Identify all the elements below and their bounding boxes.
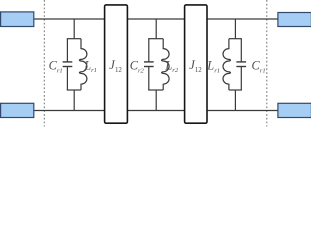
capacitor Cr2 [144, 39, 154, 90]
reference plane left (dashed) [43, 0, 45, 127]
reference plane right (dashed) [266, 0, 268, 127]
wire bottom rail segment 1 [34, 110, 105, 112]
wire: resonator 3 bottom bar [229, 89, 242, 91]
admittance inverter J12 (box 1) [105, 5, 128, 123]
svg-text:Cr1: Cr1 [49, 59, 63, 75]
label J12 (box 1) [109, 58, 122, 74]
admittance inverter J12 (box 2) [185, 5, 207, 123]
value label Lr1 [83, 58, 97, 74]
inductor Lr1 (right resonator, mirrored) [223, 39, 230, 90]
wire: resonator 3 top bar [229, 38, 242, 40]
value label Lr1 (right resonator) [206, 59, 220, 75]
wire: resonator 1 bottom bar [67, 89, 81, 91]
value label Lr2 [164, 58, 178, 74]
inductor Lr1 [79, 39, 86, 90]
node: resonator 1 top stem wire [73, 19, 75, 39]
wire bottom rail segment 2 [127, 110, 184, 112]
wire top rail segment 1 [34, 18, 105, 20]
port 2 feed line (top-right blue box) [278, 13, 312, 27]
svg-text:Cr1: Cr1 [252, 59, 266, 75]
wire top rail segment 2 [127, 18, 184, 20]
capacitor Cr1 [63, 39, 73, 90]
wire top rail segment 3 [207, 18, 278, 20]
node: resonator 1 bottom stem wire [73, 90, 75, 111]
wire: resonator 2 bottom bar [148, 89, 163, 91]
label J12 (box 2) [189, 58, 202, 74]
wire bottom rail segment 3 [207, 110, 278, 112]
value label Cr2 [130, 59, 145, 75]
node: resonator 3 top stem wire [234, 19, 236, 39]
svg-text:Cr2: Cr2 [130, 59, 145, 75]
wire: resonator 1 top bar [67, 38, 81, 40]
port 1 feed line (top-left blue box) [1, 12, 34, 27]
inductor Lr2 [162, 39, 169, 90]
capacitor Cr1 (right resonator) [236, 39, 246, 90]
node: resonator 2 bottom stem wire [155, 90, 157, 111]
svg-text:Lr1: Lr1 [83, 58, 97, 74]
wire: resonator 2 top bar [148, 38, 163, 40]
port 2 feed line (bottom-right blue box) [278, 103, 312, 117]
svg-text:Lr2: Lr2 [164, 58, 178, 74]
node: resonator 3 bottom stem wire [234, 90, 236, 111]
value label Cr1 (right resonator) [252, 59, 266, 75]
svg-text:Lr1: Lr1 [206, 59, 220, 75]
value label Cr1 [49, 59, 63, 75]
node: resonator 2 top stem wire [155, 19, 157, 39]
port 1 feed line (bottom-left blue box) [1, 103, 34, 117]
